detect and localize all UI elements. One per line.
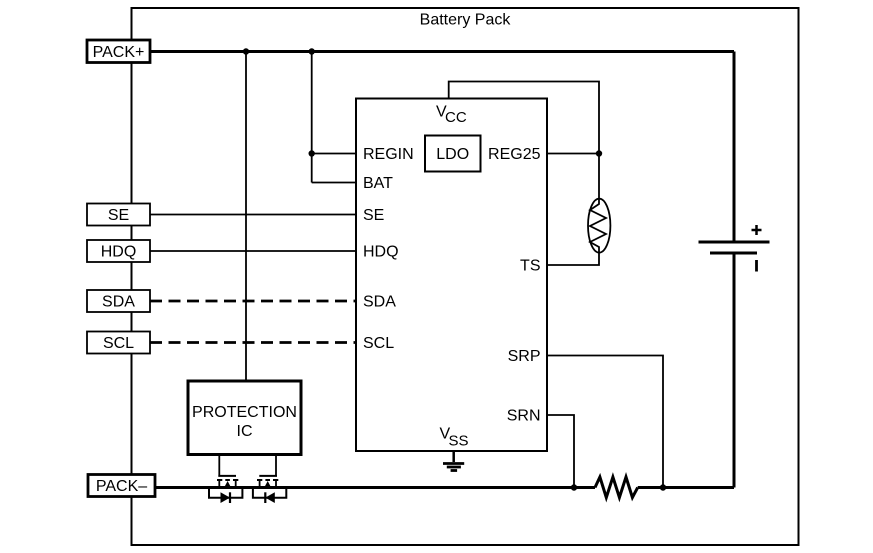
svg-text:IC: IC [237, 423, 253, 440]
svg-text:SDA: SDA [363, 294, 396, 311]
svg-text:CC: CC [445, 109, 467, 126]
svg-text:BAT: BAT [363, 175, 393, 192]
svg-text:SRP: SRP [508, 348, 541, 365]
svg-text:HDQ: HDQ [101, 244, 137, 261]
svg-text:PROTECTION: PROTECTION [192, 404, 297, 421]
svg-text:PACK+: PACK+ [93, 44, 145, 61]
svg-text:TS: TS [520, 258, 540, 275]
svg-text:LDO: LDO [436, 146, 469, 163]
svg-text:SCL: SCL [103, 335, 134, 352]
svg-text:REG25: REG25 [488, 146, 541, 163]
svg-text:Battery Pack: Battery Pack [420, 12, 512, 29]
svg-text:SE: SE [363, 207, 384, 224]
svg-text:SRN: SRN [507, 408, 541, 425]
svg-text:SDA: SDA [102, 294, 135, 311]
svg-text:SS: SS [449, 433, 469, 450]
svg-text:PACK–: PACK– [96, 478, 147, 495]
svg-text:SCL: SCL [363, 335, 394, 352]
svg-text:SE: SE [108, 207, 129, 224]
svg-text:REGIN: REGIN [363, 146, 414, 163]
svg-text:HDQ: HDQ [363, 244, 399, 261]
